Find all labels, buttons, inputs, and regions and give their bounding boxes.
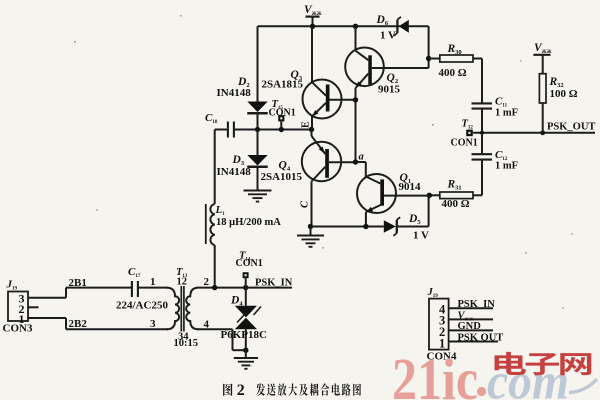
svg-text:CON1: CON1 (236, 258, 263, 269)
svg-text:12: 12 (177, 277, 188, 288)
svg-text:10:15: 10:15 (174, 338, 199, 349)
svg-text:224/AC250: 224/AC250 (116, 300, 168, 312)
svg-text:R31: R31 (447, 179, 462, 192)
svg-text:PSK_OUT: PSK_OUT (547, 122, 595, 133)
svg-text:C: C (300, 200, 311, 208)
svg-text:2B2: 2B2 (69, 318, 88, 330)
svg-text:D4: D4 (230, 295, 243, 308)
svg-text:18 μH/200 mA: 18 μH/200 mA (216, 217, 281, 228)
svg-text:9015: 9015 (378, 84, 401, 96)
svg-text:L1: L1 (215, 204, 226, 217)
svg-text:2: 2 (204, 276, 210, 288)
svg-text:J19: J19 (6, 279, 18, 292)
svg-text:2: 2 (237, 382, 245, 399)
svg-text:100 Ω: 100 Ω (550, 88, 578, 100)
svg-text:PSK_IN: PSK_IN (255, 278, 293, 289)
svg-text:D5: D5 (408, 213, 421, 226)
svg-text:2SA1015: 2SA1015 (261, 171, 303, 183)
svg-text:400 Ω: 400 Ω (439, 67, 467, 79)
svg-text:CON1: CON1 (451, 138, 478, 149)
svg-text:R30: R30 (447, 43, 462, 56)
svg-text:2SA1815: 2SA1815 (262, 79, 304, 91)
svg-text:C18: C18 (205, 112, 218, 125)
svg-text:IN4148: IN4148 (217, 87, 252, 99)
svg-text:a: a (359, 152, 364, 163)
svg-text:C17: C17 (128, 266, 141, 279)
svg-text:1 V: 1 V (413, 230, 429, 242)
svg-text:3: 3 (150, 318, 156, 330)
svg-text:IN4148: IN4148 (217, 166, 252, 178)
svg-text:21ic: 21ic (392, 346, 478, 400)
svg-text:1 V: 1 V (380, 30, 396, 42)
svg-text:E: E (301, 121, 312, 128)
svg-text:1: 1 (150, 276, 156, 288)
svg-text:CON3: CON3 (3, 323, 33, 335)
svg-text:PSK OUT: PSK OUT (458, 332, 504, 343)
svg-text:D6: D6 (376, 14, 389, 27)
svg-text:P6KP18C: P6KP18C (221, 329, 267, 341)
svg-text:J19: J19 (427, 287, 439, 299)
svg-text:VЖЖ: VЖЖ (534, 42, 552, 55)
svg-text:VЖЖ: VЖЖ (458, 310, 474, 321)
svg-text:1 mF: 1 mF (495, 108, 518, 119)
svg-text:1 mF: 1 mF (495, 161, 518, 172)
svg-text:400 Ω: 400 Ω (442, 198, 470, 210)
svg-text:VЖЖ: VЖЖ (304, 4, 322, 17)
svg-text:PSK_IN: PSK_IN (458, 299, 496, 310)
svg-text:9014: 9014 (399, 181, 422, 193)
svg-text:T12: T12 (462, 119, 474, 131)
svg-text:com: com (487, 354, 569, 400)
svg-text:GND: GND (458, 321, 482, 332)
